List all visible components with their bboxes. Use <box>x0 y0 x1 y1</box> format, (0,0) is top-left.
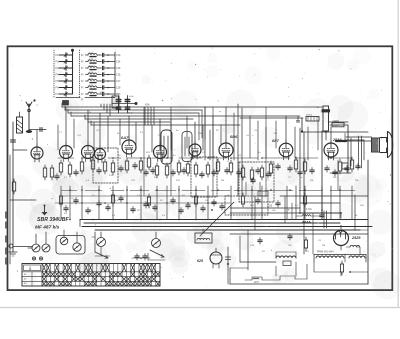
svg-text:40uF: 40uF <box>129 96 134 98</box>
svg-text:ANT: ANT <box>254 281 259 284</box>
svg-text:PRIM 6V3 6A4: PRIM 6V3 6A4 <box>317 251 334 254</box>
svg-text:C13: C13 <box>116 54 121 57</box>
svg-text:C18: C18 <box>116 87 121 90</box>
svg-text:C15: C15 <box>116 67 121 70</box>
svg-text:2M: 2M <box>322 245 325 247</box>
svg-text:2525: 2525 <box>351 236 361 240</box>
svg-text:FI: FI <box>81 73 84 77</box>
svg-text:42A: 42A <box>145 103 150 107</box>
svg-text:2M: 2M <box>221 180 224 182</box>
svg-text:1M: 1M <box>310 180 313 182</box>
svg-text:C16: C16 <box>116 74 121 77</box>
svg-text:FI: FI <box>81 79 84 83</box>
svg-text:4.7kn: 4.7kn <box>306 208 313 211</box>
svg-text:50K: 50K <box>198 133 202 135</box>
svg-text:0.5MΩ: 0.5MΩ <box>332 121 339 123</box>
svg-text:625: 625 <box>197 259 204 263</box>
svg-text:C25: C25 <box>267 204 273 208</box>
svg-text:C14: C14 <box>116 61 121 64</box>
svg-text:C17: C17 <box>116 80 121 83</box>
svg-text:FI: FI <box>81 86 84 90</box>
svg-text:1M: 1M <box>158 135 161 137</box>
